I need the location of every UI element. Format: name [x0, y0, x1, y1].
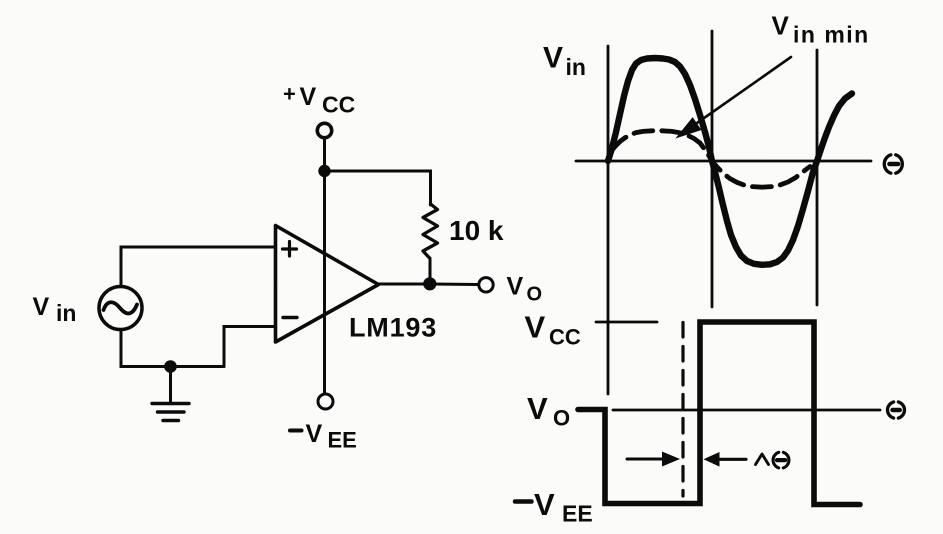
svg-text:O: O — [553, 406, 570, 431]
wire source top to + input — [121, 247, 276, 286]
svg-text:O: O — [527, 284, 543, 306]
arrow left of delta-theta gap — [627, 452, 680, 467]
svg-text:V: V — [527, 391, 548, 426]
vertical reference line at second crossing — [816, 50, 819, 305]
label 10 k — [449, 215, 504, 246]
op-amp + input marking — [283, 242, 297, 257]
wire resistor to output node — [429, 258, 432, 284]
power rail through op-amp — [323, 171, 326, 393]
label -Vee (plot) — [515, 487, 593, 527]
svg-text:LM193: LM193 — [349, 313, 437, 343]
svg-text:V: V — [525, 310, 546, 345]
wire source bottom to ground node — [121, 331, 224, 367]
axis Y top plot — [607, 46, 610, 394]
voltage source V1 (AC sine source) — [99, 287, 142, 330]
svg-text:CC: CC — [322, 92, 355, 118]
resistor R1 zigzag — [423, 204, 438, 258]
waveform Vo square wave — [578, 322, 860, 505]
dashed transition line (Vin-min output) — [681, 323, 684, 497]
ground — [152, 367, 189, 421]
label Vo (plot) — [527, 391, 570, 431]
label Vcc (plot) — [525, 310, 581, 350]
svg-text:10 k: 10 k — [449, 215, 504, 246]
svg-text:V: V — [534, 487, 555, 522]
label +Vcc — [283, 82, 355, 118]
terminal +Vcc — [317, 123, 331, 137]
svg-text:V: V — [306, 420, 323, 448]
waveform Vin-min dashed sine — [612, 131, 810, 187]
junction output node — [423, 277, 436, 290]
arrow from Vin-min label to dashed curve — [678, 57, 792, 137]
svg-text:in: in — [566, 54, 586, 80]
wire op-amp output to node — [379, 283, 431, 286]
label LM193 — [349, 313, 437, 343]
wire jog to - input — [224, 327, 276, 367]
arrow right of delta-theta gap — [704, 452, 747, 467]
label theta (top axis) — [884, 155, 902, 173]
Vcc level tick line — [596, 321, 657, 324]
label Vo (output) — [507, 273, 543, 306]
svg-text:EE: EE — [328, 428, 357, 453]
svg-text:EE: EE — [562, 501, 593, 527]
svg-text:in: in — [56, 300, 76, 326]
junction ground node — [164, 360, 177, 373]
label Vin (source) — [33, 293, 77, 326]
axis theta top plot — [576, 160, 871, 163]
axis theta bottom plot — [613, 409, 880, 412]
wire Vcc node to resistor top — [325, 171, 431, 205]
label theta (bottom axis) — [887, 402, 904, 418]
vertical reference line at first crossing — [711, 31, 714, 307]
svg-text:V: V — [543, 42, 563, 75]
wire node to output terminal — [430, 283, 479, 287]
terminal -Vee — [318, 394, 333, 409]
label -Vee — [290, 420, 357, 453]
junction Vcc node — [318, 165, 330, 177]
terminal Vo — [479, 278, 493, 292]
svg-text:+: + — [283, 82, 296, 107]
label Vin (plot) — [543, 42, 586, 81]
svg-text:V: V — [772, 11, 790, 41]
op-amp - input marking — [283, 316, 297, 319]
svg-text:V: V — [33, 293, 50, 321]
svg-text:V: V — [300, 83, 317, 111]
svg-text:in min: in min — [793, 22, 870, 48]
label delta theta — [756, 452, 789, 468]
svg-text:V: V — [507, 273, 524, 301]
waveform Vin solid sine — [608, 58, 852, 265]
wire Vcc terminal to rail — [323, 138, 326, 171]
op-amp U1 triangle — [276, 226, 379, 343]
svg-text:CC: CC — [549, 325, 581, 350]
label Vin min — [772, 11, 870, 48]
